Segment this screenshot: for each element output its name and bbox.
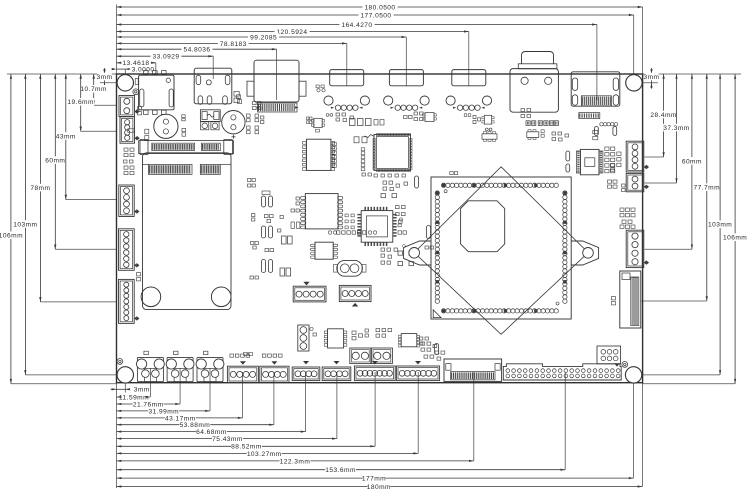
svg-text:3mm: 3mm: [643, 74, 659, 81]
svg-text:99.2085: 99.2085: [250, 34, 277, 41]
svg-text:28.4mm: 28.4mm: [650, 112, 677, 119]
svg-text:37.3mm: 37.3mm: [663, 125, 690, 132]
svg-text:78mm: 78mm: [30, 185, 50, 192]
svg-text:10.7mm: 10.7mm: [80, 86, 107, 93]
svg-text:180mm: 180mm: [367, 484, 391, 491]
svg-text:19.6mm: 19.6mm: [67, 99, 94, 106]
svg-text:33.0929: 33.0929: [153, 54, 180, 61]
svg-text:103.27mm: 103.27mm: [247, 451, 282, 458]
svg-text:122.3mm: 122.3mm: [280, 458, 311, 465]
svg-text:3.0000: 3.0000: [132, 67, 155, 74]
svg-text:60mm: 60mm: [45, 158, 65, 165]
svg-text:60mm: 60mm: [682, 158, 702, 165]
svg-text:54.8036: 54.8036: [184, 47, 211, 54]
svg-text:120.5924: 120.5924: [276, 29, 307, 36]
svg-text:75.43mm: 75.43mm: [212, 436, 243, 443]
svg-text:103mm: 103mm: [708, 222, 732, 229]
svg-text:106mm: 106mm: [723, 235, 747, 242]
svg-text:77.7mm: 77.7mm: [694, 185, 721, 192]
svg-text:43mm: 43mm: [56, 133, 76, 140]
svg-text:177.0500: 177.0500: [360, 12, 391, 19]
svg-text:103mm: 103mm: [13, 221, 37, 228]
svg-text:106mm: 106mm: [0, 233, 23, 240]
svg-text:164.4270: 164.4270: [341, 22, 372, 29]
svg-text:3mm: 3mm: [134, 387, 150, 394]
svg-text:3mm: 3mm: [96, 74, 112, 81]
svg-text:177mm: 177mm: [362, 476, 386, 483]
svg-text:180.0500: 180.0500: [364, 4, 395, 11]
svg-text:78.8183: 78.8183: [220, 41, 247, 48]
svg-text:153.6mm: 153.6mm: [325, 467, 356, 474]
